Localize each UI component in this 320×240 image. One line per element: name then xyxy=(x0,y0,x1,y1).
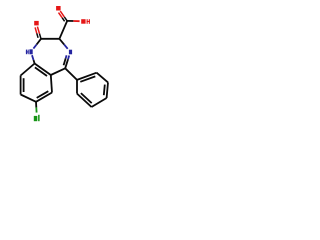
wire bond CX-OH xyxy=(67,20,73,22)
wire bond C8-C7 xyxy=(21,95,36,102)
wire bond C7-Cl xyxy=(35,102,37,108)
atom label N1 N xyxy=(29,49,32,54)
wire bond C6p-C1p xyxy=(76,80,78,94)
atom label N1 H xyxy=(26,50,27,55)
wire bond C9a=C5a outer xyxy=(35,64,51,76)
wire bond C3p=C4p outer xyxy=(107,82,108,98)
wire bond N1-C2 xyxy=(33,45,36,49)
wire bond C2=O2 outer xyxy=(37,27,39,34)
wire bond N4=C5 outer xyxy=(68,56,69,60)
wire bond C7=C6 inner xyxy=(37,91,49,98)
atom label Cl C xyxy=(34,116,38,121)
atom label OH H xyxy=(87,19,88,24)
wire bond C2=O2 inner xyxy=(35,27,37,33)
chemical structure: clorazepate xyxy=(0,0,130,130)
wire bond C7=C6 outer xyxy=(36,93,52,102)
wire bond C5-C5a xyxy=(51,68,65,75)
wire bond C9a-C9 xyxy=(21,64,35,76)
wire bond C3-N4 xyxy=(59,39,64,45)
wire bond C3p=C4p inner xyxy=(104,85,105,96)
wire bond C3-CX xyxy=(59,21,67,39)
wire bond C5p=C6p inner xyxy=(81,93,92,103)
wire bond C9=C8 inner xyxy=(23,78,25,92)
atom label Cl l xyxy=(38,115,40,121)
wire bond C5p=C6p outer xyxy=(77,94,92,107)
wire bond C9=C8 outer xyxy=(20,76,22,95)
wire bond C1p=C2p inner xyxy=(80,76,95,81)
atom label N4 xyxy=(69,50,72,55)
wire bond C2-C3 xyxy=(41,38,59,40)
atom label OH O xyxy=(81,19,85,24)
atom label O2 xyxy=(34,21,39,26)
wire bond C2p-C3p xyxy=(97,73,108,83)
wire bond CX=OX outer xyxy=(60,11,64,17)
atom label OX xyxy=(56,6,61,11)
wire bond N4=C5 inner xyxy=(65,55,68,58)
wire bond CX=OX inner xyxy=(59,13,63,18)
wire bond C6-C5a xyxy=(51,75,52,93)
wire bond C9a-N1 xyxy=(34,60,35,64)
wire bond C4p-C5p xyxy=(92,98,107,107)
wire bond C5-C1p xyxy=(65,68,77,80)
wire bond C9a=C5a inner xyxy=(35,67,47,76)
wire bond C1p=C2p outer xyxy=(77,73,97,80)
